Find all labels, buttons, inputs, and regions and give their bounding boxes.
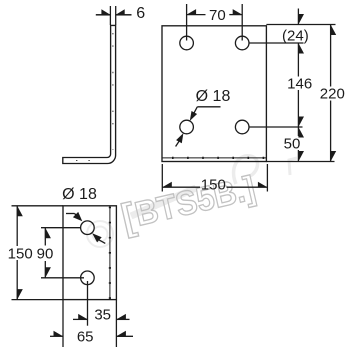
dim 150 extension lines (front view) [161, 164, 163, 192]
dim 90 line [44, 228, 46, 246]
dim 70 line [187, 14, 206, 16]
svg-text:150: 150 [8, 245, 33, 262]
dim 35 line [73, 318, 88, 320]
dim 24 arrows [298, 14, 304, 25]
dim 90 arrows [45, 228, 51, 239]
svg-text:146: 146 [287, 76, 312, 93]
svg-text:Ø 18: Ø 18 [62, 186, 97, 203]
bottom view bend line [109, 206, 111, 300]
front view plate outline [162, 26, 266, 162]
dim 150 arrows (bottom view) [17, 206, 23, 217]
row1 extension line [249, 42, 304, 44]
dim 70 arrows [187, 9, 197, 15]
leader arrows front view [190, 111, 197, 121]
dim 50 arrows [298, 127, 304, 138]
dim 90 extension lines [41, 227, 81, 229]
front view bend line [162, 157, 266, 159]
svg-text:90: 90 [37, 245, 54, 262]
dim 150 arrows (front view) [162, 182, 172, 188]
svg-text:50: 50 [284, 135, 301, 152]
hole lower (bottom view) [81, 271, 95, 285]
hole bottom-left [180, 120, 194, 134]
watermark faint echo band [131, 156, 297, 216]
svg-text:(24): (24) [282, 27, 309, 44]
svg-text:220: 220 [320, 86, 345, 103]
svg-text:150: 150 [201, 176, 226, 193]
side view vertical center line [112, 33, 114, 150]
hole top-right [235, 36, 249, 50]
outer chain line (220) [330, 25, 332, 87]
svg-text:35: 35 [94, 307, 111, 324]
dim 65 arrows [54, 331, 64, 337]
hole upper (bottom view) [81, 221, 95, 235]
hole bottom-right [235, 120, 249, 134]
leader diameter 18 front view [197, 106, 220, 108]
dim 146 arrows [298, 117, 304, 128]
dim 6 arrows [101, 9, 110, 15]
side view horizontal center line [68, 160, 105, 162]
bottom view rectangle [63, 206, 116, 300]
hole top-left [180, 36, 194, 50]
bottom view lower extension lines [62, 300, 64, 347]
dim 35 arrows [78, 314, 88, 320]
dim 6 line [96, 14, 111, 16]
watermark rings [87, 221, 113, 247]
svg-text:65: 65 [77, 328, 94, 345]
dim 150 line [162, 186, 200, 188]
inner chain line (24/146/50) [297, 9, 299, 25]
dim 65 line [50, 335, 63, 337]
row2 extension line [249, 126, 303, 128]
watermark BTS5B [118, 168, 260, 240]
dim 150 line (bottom view) [16, 206, 18, 246]
bottom edge extension line [266, 161, 334, 163]
dim 150 extension lines (bottom view) [12, 205, 64, 207]
side view L-profile outline [63, 25, 116, 163]
leader diameter 18 bottom view [66, 213, 75, 215]
svg-text:Ø 18: Ø 18 [196, 88, 231, 105]
dim 6 extension lines [109, 6, 111, 25]
svg-text:6: 6 [136, 5, 145, 22]
top edge extension line [266, 24, 335, 26]
leader arrows bottom view [73, 212, 82, 221]
dim 220 arrows [331, 25, 337, 36]
svg-text:70: 70 [209, 7, 226, 24]
dim 70 extension lines [186, 4, 188, 41]
